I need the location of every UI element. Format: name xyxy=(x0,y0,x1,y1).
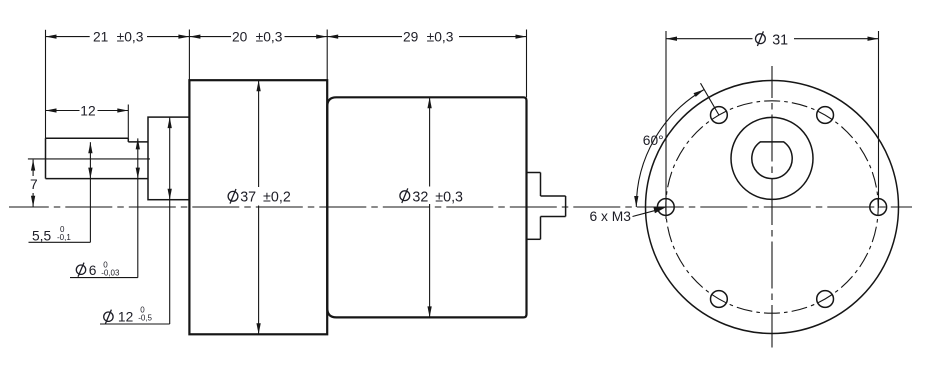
svg-text:21 ±0,3: 21 ±0,3 xyxy=(93,30,144,45)
svg-text:7: 7 xyxy=(30,177,38,192)
svg-text:37 ±0,2: 37 ±0,2 xyxy=(240,190,291,206)
svg-text:29 ±0,3: 29 ±0,3 xyxy=(403,30,454,45)
svg-text:32 ±0,3: 32 ±0,3 xyxy=(412,190,463,206)
svg-text:6 x M3: 6 x M3 xyxy=(590,209,632,224)
svg-text:60°: 60° xyxy=(643,133,664,148)
svg-text:31: 31 xyxy=(772,32,788,48)
svg-text:12: 12 xyxy=(80,103,95,118)
svg-text:6: 6 xyxy=(89,263,97,278)
svg-text:12: 12 xyxy=(118,309,133,324)
svg-text:-0,03: -0,03 xyxy=(101,269,120,278)
svg-text:-0,1: -0,1 xyxy=(57,233,71,242)
svg-text:20 ±0,3: 20 ±0,3 xyxy=(232,30,283,45)
svg-text:-0,5: -0,5 xyxy=(138,314,152,323)
svg-text:5,5: 5,5 xyxy=(32,229,52,244)
